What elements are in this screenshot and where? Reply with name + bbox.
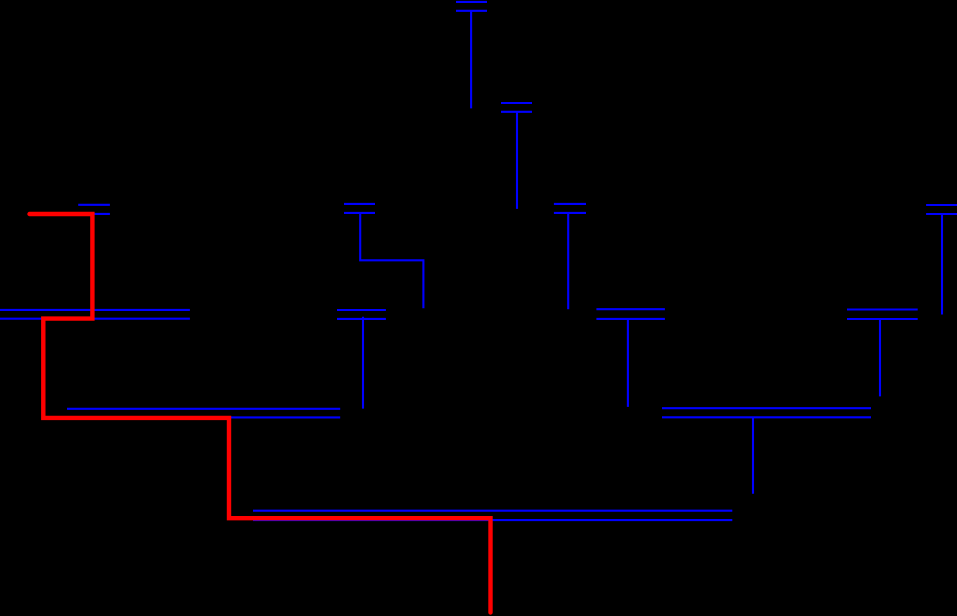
node 2 bottom bar bbox=[501, 111, 532, 113]
node 6 top bar bbox=[926, 204, 957, 206]
node 10 bottom bar bbox=[847, 318, 918, 320]
node 6 bottom bar bbox=[926, 213, 957, 215]
edge from node 10 down bbox=[879, 319, 881, 396]
node 11 bottom bar bbox=[67, 416, 340, 418]
node 8 top bar bbox=[337, 309, 386, 311]
node 11 top bar bbox=[67, 408, 340, 410]
red search path bbox=[30, 214, 491, 613]
node 3 bottom bar bbox=[78, 213, 110, 215]
node 5 bottom bar bbox=[554, 212, 586, 214]
edge from node 12 down bbox=[752, 418, 754, 494]
node 12 top bar bbox=[662, 407, 871, 409]
node 1 (root) bottom bar bbox=[456, 10, 487, 12]
node 13 bottom bar bbox=[253, 519, 732, 521]
node 8 bottom bar bbox=[337, 318, 386, 320]
L-shaped edge from node 4 bbox=[360, 213, 423, 308]
edge from node 3 down (under red path) bbox=[92, 214, 94, 310]
node 9 top bar bbox=[596, 308, 665, 310]
node 4 bottom bar bbox=[344, 212, 375, 214]
node 4 top bar bbox=[344, 203, 375, 205]
node 12 bottom bar bbox=[662, 416, 871, 418]
edge from node 7 down (under red path) bbox=[42, 319, 44, 409]
edge from node 5 down bbox=[567, 213, 569, 309]
edge from node 9 down bbox=[627, 319, 629, 407]
edge from node 6 down bbox=[941, 214, 943, 314]
node 9 bottom bar bbox=[596, 318, 665, 320]
node 1 (root) top bar bbox=[456, 1, 487, 3]
node 10 top bar bbox=[847, 308, 918, 310]
node 7 bottom bar bbox=[0, 318, 190, 320]
edge from node 11 down (under red path) bbox=[228, 418, 230, 511]
node 2 top bar bbox=[501, 102, 532, 104]
node 13 top bar bbox=[253, 510, 732, 512]
node 5 top bar bbox=[554, 203, 586, 205]
edge from node 1 down bbox=[470, 11, 472, 108]
edge from node 8 down bbox=[362, 317, 364, 409]
node 3 top bar bbox=[78, 204, 110, 206]
node 7 top bar bbox=[0, 309, 190, 311]
edge from node 2 down bbox=[516, 112, 518, 209]
